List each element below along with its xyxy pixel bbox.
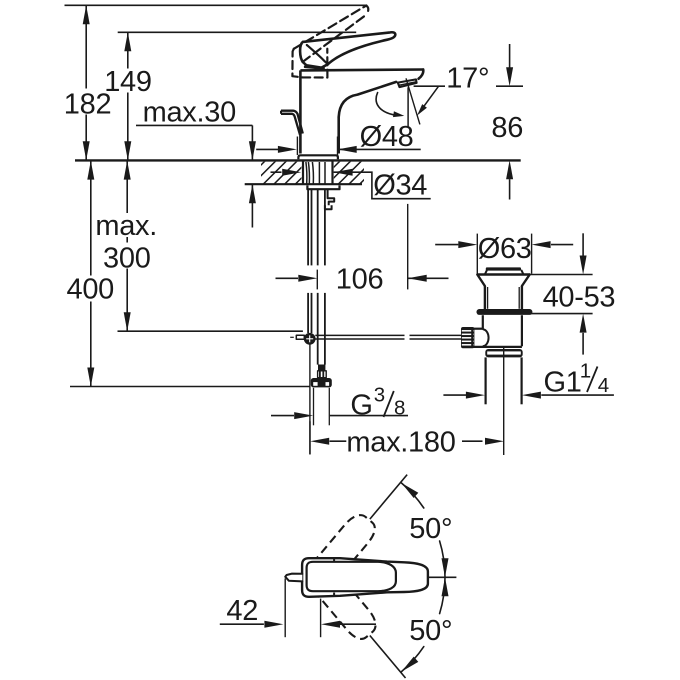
svg-text:50°: 50°	[409, 513, 452, 545]
svg-text:106: 106	[336, 264, 384, 296]
svg-text:400: 400	[67, 274, 115, 306]
svg-text:1: 1	[580, 360, 591, 383]
svg-text:max.180: max.180	[346, 427, 455, 459]
svg-text:G1: G1	[544, 367, 582, 399]
svg-text:max.: max.	[95, 210, 157, 242]
svg-text:42: 42	[226, 595, 258, 627]
svg-text:17°: 17°	[446, 62, 489, 94]
svg-text:max.30: max.30	[143, 96, 236, 128]
svg-text:149: 149	[104, 66, 152, 98]
svg-text:50°: 50°	[409, 615, 452, 647]
svg-text:Ø48: Ø48	[360, 121, 414, 153]
svg-text:300: 300	[103, 243, 151, 275]
svg-text:4: 4	[598, 374, 609, 397]
svg-text:Ø63: Ø63	[478, 233, 532, 265]
svg-text:3: 3	[374, 383, 385, 406]
svg-text:8: 8	[394, 397, 405, 420]
svg-text:Ø34: Ø34	[373, 170, 427, 202]
svg-text:G: G	[350, 390, 372, 422]
svg-text:40-53: 40-53	[543, 281, 616, 313]
svg-text:86: 86	[491, 112, 523, 144]
